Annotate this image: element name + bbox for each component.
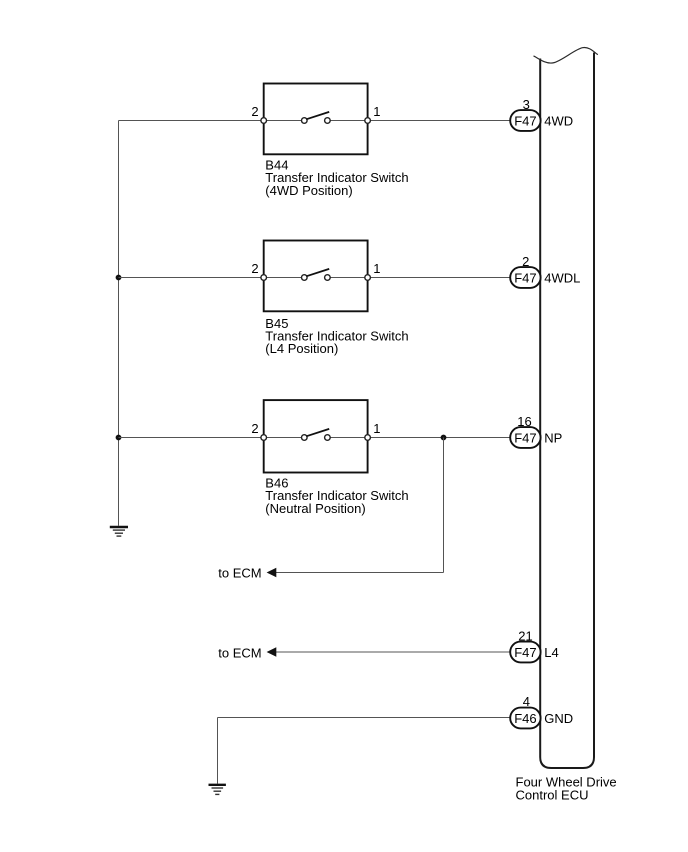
switch B44 Transfer Indicator Switch (4WD Position) — [261, 84, 371, 155]
svg-text:21: 21 — [518, 628, 532, 643]
svg-text:(4WD Position): (4WD Position) — [265, 183, 352, 198]
svg-text:1: 1 — [373, 104, 380, 119]
switch B46 Transfer Indicator Switch (Neutral Position) — [261, 400, 371, 472]
svg-text:F47: F47 — [514, 271, 536, 286]
label: B45 Transfer Indicator Switch (L4 Position) — [265, 316, 408, 356]
wire: B46 pin 1 to ECU F47 pin 16 — [368, 437, 511, 439]
label: B46 Transfer Indicator Switch (Neutral Position) — [265, 475, 408, 515]
svg-text:2: 2 — [522, 254, 529, 269]
wire: NP branch vertical down — [443, 438, 445, 573]
ECU U1 outline (Four Wheel Drive Control ECU body) — [534, 48, 598, 768]
svg-text:F47: F47 — [514, 645, 536, 660]
ground G1 (left bus ground) — [110, 527, 128, 536]
label: B44 Transfer Indicator Switch (4WD Position) — [265, 157, 408, 197]
svg-text:to ECM: to ECM — [218, 565, 261, 580]
wire: ECU F46 pin 4 (GND) to left — [218, 717, 511, 719]
wire: GND vertical down to ground — [217, 718, 219, 784]
svg-text:4WDL: 4WDL — [544, 271, 580, 286]
wire: NP branch horizontal to ECM arrow — [276, 572, 444, 574]
svg-text:F47: F47 — [514, 114, 536, 129]
svg-text:Control ECU: Control ECU — [516, 788, 589, 803]
svg-text:16: 16 — [517, 414, 531, 429]
wire: ECU F47 pin 21 to ECM arrow (L4 row) — [276, 651, 511, 653]
connector F46 pin 4 (GND) — [510, 708, 540, 729]
arrow: to ECM (NP branch) — [267, 568, 277, 578]
svg-text:2: 2 — [251, 261, 258, 276]
wire: B45 pin 1 to ECU F47 pin 2 — [368, 277, 511, 279]
svg-text:4: 4 — [523, 694, 530, 709]
connector F47 pin 21 (L4) — [510, 642, 540, 663]
svg-text:2: 2 — [251, 421, 258, 436]
svg-text:L4: L4 — [544, 645, 558, 660]
switch B45 Transfer Indicator Switch (L4 Position) — [261, 241, 371, 312]
svg-text:F47: F47 — [514, 431, 536, 446]
wire: B44 pin 1 to ECU F47 pin 3 — [368, 120, 511, 122]
svg-text:4WD: 4WD — [544, 114, 573, 129]
junction: bus / row 2 — [116, 275, 122, 281]
wire: bus to B45 pin 2 (row 2) — [119, 277, 264, 279]
junction: bus / row 3 — [116, 435, 122, 441]
ground G2 (ECU GND ground) — [209, 785, 226, 795]
junction: NP row / to-ECM branch — [441, 435, 447, 441]
wire: bus to B44 pin 2 (row 1) — [119, 120, 264, 122]
svg-text:(L4 Position): (L4 Position) — [265, 341, 338, 356]
svg-text:2: 2 — [251, 104, 258, 119]
wire: bus to B46 pin 2 (row 3) — [119, 437, 264, 439]
arrow: to ECM (L4 row) — [267, 647, 277, 657]
svg-text:(Neutral Position): (Neutral Position) — [265, 501, 365, 516]
svg-text:F46: F46 — [514, 711, 536, 726]
svg-text:1: 1 — [373, 261, 380, 276]
svg-text:1: 1 — [373, 421, 380, 436]
svg-text:GND: GND — [544, 711, 573, 726]
connector F47 pin 3 (4WD) — [510, 110, 540, 131]
svg-text:to ECM: to ECM — [218, 645, 261, 660]
svg-text:NP: NP — [544, 431, 562, 446]
svg-text:3: 3 — [523, 97, 530, 112]
connector F47 pin 16 (NP) — [510, 427, 540, 448]
connector F47 pin 2 (4WDL) — [510, 267, 540, 288]
wire: left bus vertical (B44/B45/B46 common to ground) — [118, 121, 120, 526]
label: Four Wheel Drive Control ECU — [516, 774, 617, 802]
